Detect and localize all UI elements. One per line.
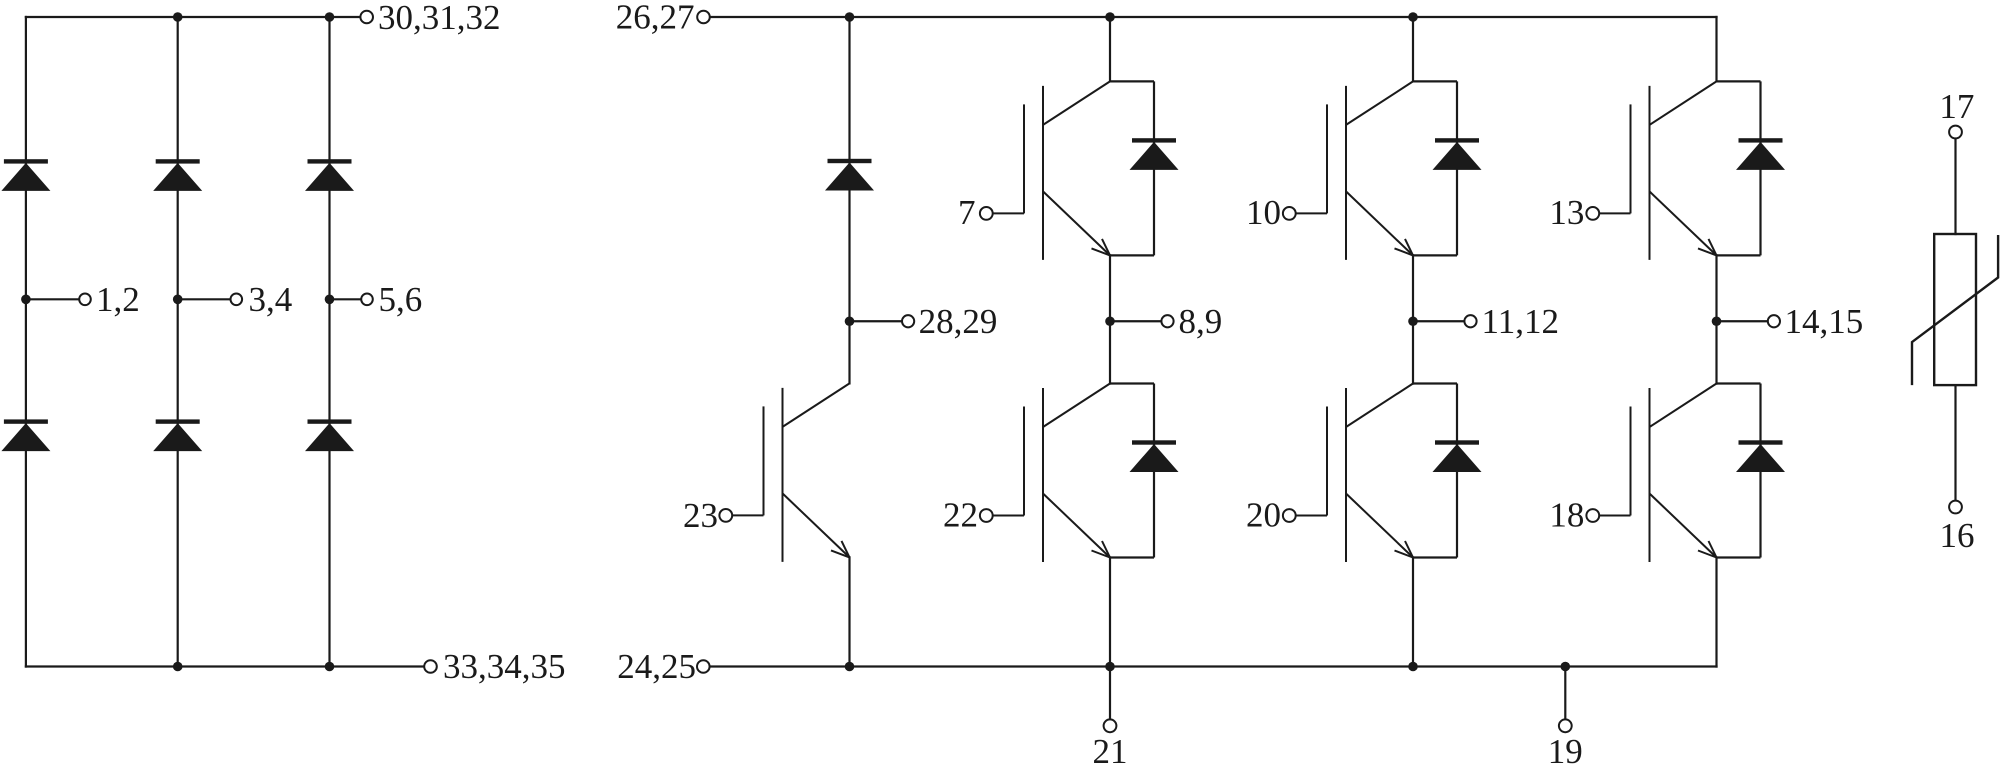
svg-text:23: 23 xyxy=(683,496,718,535)
svg-text:10: 10 xyxy=(1246,193,1281,232)
svg-text:14,15: 14,15 xyxy=(1785,302,1864,341)
svg-text:8,9: 8,9 xyxy=(1179,302,1223,341)
svg-text:3,4: 3,4 xyxy=(249,280,293,319)
svg-text:30,31,32: 30,31,32 xyxy=(378,0,501,37)
svg-text:20: 20 xyxy=(1246,496,1281,535)
svg-text:7: 7 xyxy=(958,193,976,232)
svg-text:13: 13 xyxy=(1549,193,1584,232)
svg-text:5,6: 5,6 xyxy=(379,280,423,319)
svg-text:21: 21 xyxy=(1093,732,1128,771)
svg-text:19: 19 xyxy=(1548,732,1583,771)
svg-text:22: 22 xyxy=(943,496,978,535)
svg-text:33,34,35: 33,34,35 xyxy=(443,647,566,686)
svg-text:18: 18 xyxy=(1549,496,1584,535)
svg-text:1,2: 1,2 xyxy=(96,280,140,319)
svg-text:28,29: 28,29 xyxy=(919,302,998,341)
svg-text:11,12: 11,12 xyxy=(1482,302,1559,341)
svg-text:17: 17 xyxy=(1939,87,1974,126)
svg-text:26,27: 26,27 xyxy=(616,0,695,37)
svg-text:24,25: 24,25 xyxy=(617,647,696,686)
svg-text:16: 16 xyxy=(1940,516,1975,555)
